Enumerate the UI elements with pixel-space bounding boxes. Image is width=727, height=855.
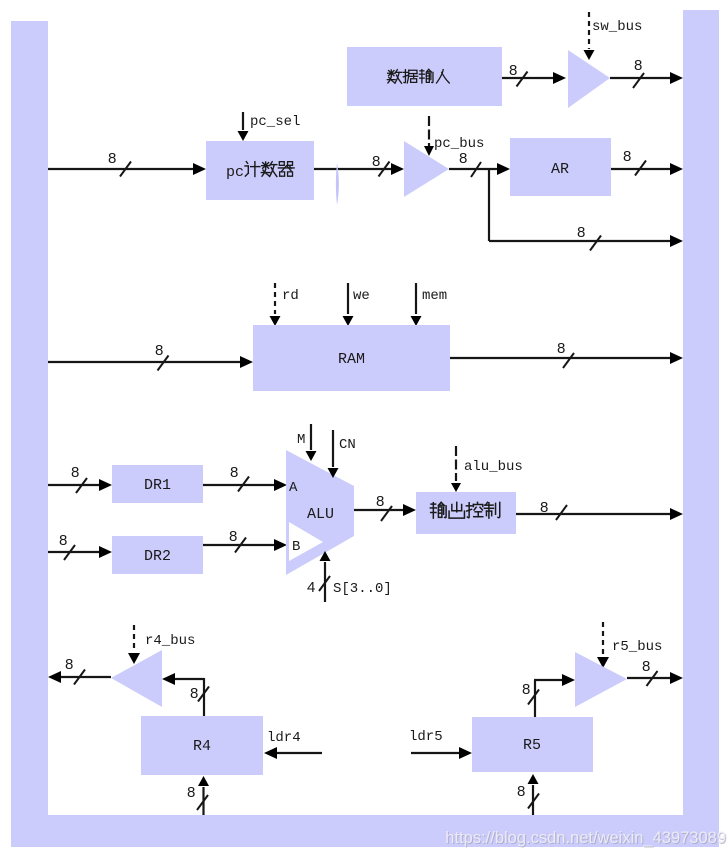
bus width label 8 xyxy=(187,784,208,810)
svg-text:8: 8 xyxy=(65,656,73,673)
control S[3..0] xyxy=(320,551,331,602)
wire ALU → 输出控制 xyxy=(354,504,416,516)
wire sw buffer → right rail xyxy=(610,72,683,84)
tri-state buffer r5 xyxy=(575,652,627,707)
svg-text:mem: mem xyxy=(422,288,447,304)
svg-text:8: 8 xyxy=(623,148,631,165)
block R4 xyxy=(141,716,263,775)
control alu_bus (dashed) xyxy=(451,446,461,492)
bus width label 8 xyxy=(522,681,539,705)
control rd (dashed) xyxy=(270,283,281,326)
wire lower line → right rail xyxy=(489,235,683,247)
bus width label 8 xyxy=(642,658,658,686)
svg-text:R5: R5 xyxy=(523,737,541,754)
wire left rail → pc计数器 xyxy=(48,163,206,175)
svg-text:DR1: DR1 xyxy=(144,477,171,494)
svg-text:sw_bus: sw_bus xyxy=(592,19,642,35)
svg-text:B: B xyxy=(292,539,300,555)
ALU U1 (arithmetic logic unit) xyxy=(286,450,354,575)
wire DR1 → ALU input A xyxy=(203,479,287,491)
bus width label 8 xyxy=(557,340,574,368)
bus width label 8 xyxy=(633,57,644,88)
svg-text:8: 8 xyxy=(108,150,116,167)
wire left rail → DR2 xyxy=(48,546,112,558)
svg-text:CN: CN xyxy=(339,437,356,453)
svg-text:8: 8 xyxy=(376,493,384,510)
block R5 xyxy=(472,717,593,772)
svg-text:8: 8 xyxy=(459,150,467,167)
svg-text:8: 8 xyxy=(577,224,585,241)
wire DR2 → ALU input B xyxy=(203,539,287,551)
bus width label 4 xyxy=(307,576,330,596)
bus width label 8 xyxy=(190,685,209,702)
svg-text:DR2: DR2 xyxy=(144,548,171,565)
wire r5 buffer → right rail xyxy=(627,672,683,684)
watermark xyxy=(445,829,727,848)
svg-text:8: 8 xyxy=(642,658,650,675)
tri-state buffer pc xyxy=(404,141,449,197)
svg-text:8: 8 xyxy=(59,532,67,549)
svg-text:rd: rd xyxy=(282,288,299,304)
svg-text:r5_bus: r5_bus xyxy=(612,639,662,655)
wire pc buffer → AR xyxy=(449,163,510,175)
wire AR → right rail xyxy=(611,163,683,175)
block DR2 xyxy=(112,536,203,574)
bus width label 8 xyxy=(108,150,131,177)
wire RAM → right rail xyxy=(450,352,683,364)
control we xyxy=(343,283,354,326)
wire R5 → r5 buffer xyxy=(534,674,575,717)
bus width label 8 xyxy=(65,656,85,685)
wire 数据输入 → sw buffer xyxy=(502,72,566,84)
wire bottom rail → R5 xyxy=(528,774,539,815)
bus width label 8 xyxy=(509,62,528,87)
block AR xyxy=(510,138,611,196)
svg-text:we: we xyxy=(353,288,370,304)
control ldr4 xyxy=(264,747,322,759)
bus width label 8 xyxy=(229,528,246,553)
bus width label 8 xyxy=(155,342,169,371)
wire 输出控制 → right rail xyxy=(516,508,683,520)
bus rail right xyxy=(683,10,719,847)
wire left rail → DR1 xyxy=(48,479,112,491)
block DR1 xyxy=(112,465,203,503)
svg-text:8: 8 xyxy=(190,685,198,702)
wire bottom rail → R4 xyxy=(198,776,209,815)
control sw_bus (dashed) xyxy=(584,12,595,60)
control M xyxy=(306,424,317,461)
control pc_bus (dashed) xyxy=(424,116,434,156)
control r4_bus (dashed) xyxy=(128,625,140,664)
svg-text:r4_bus: r4_bus xyxy=(145,633,195,649)
svg-text:alu_bus: alu_bus xyxy=(464,459,523,475)
svg-text:S[3..0]: S[3..0] xyxy=(333,581,392,597)
svg-text:8: 8 xyxy=(230,464,238,481)
svg-text:8: 8 xyxy=(517,783,525,800)
svg-text:8: 8 xyxy=(155,342,163,359)
bus width label 8 xyxy=(71,464,87,493)
wire R4 → r4 buffer xyxy=(162,673,204,716)
wire r4 buffer → left rail xyxy=(48,671,111,683)
svg-text:pc: pc xyxy=(226,164,244,181)
svg-text:8: 8 xyxy=(71,464,79,481)
svg-text:A: A xyxy=(289,480,298,496)
svg-text:4: 4 xyxy=(307,579,315,596)
svg-text:8: 8 xyxy=(187,784,195,801)
control CN xyxy=(328,430,339,478)
block pc计数器 (pc counter) xyxy=(206,141,314,200)
bus width label 8 xyxy=(577,224,601,251)
control mem xyxy=(411,283,422,326)
control r5_bus (dashed) xyxy=(597,622,609,668)
svg-text:ldr4: ldr4 xyxy=(267,730,301,746)
svg-text:8: 8 xyxy=(540,499,548,516)
artifact sliver xyxy=(336,163,339,205)
tri-state buffer r4 (points left) xyxy=(111,650,162,707)
svg-text:8: 8 xyxy=(634,57,642,74)
svg-text:8: 8 xyxy=(557,340,565,357)
block 数据输入 (data input) xyxy=(347,47,502,106)
wire left rail → RAM xyxy=(48,356,253,368)
svg-text:https://blog.csdn.net/weixin_4: https://blog.csdn.net/weixin_43973089 xyxy=(445,829,726,847)
svg-text:AR: AR xyxy=(551,161,569,178)
bus width label 8 xyxy=(459,150,481,177)
svg-text:R4: R4 xyxy=(193,738,211,755)
control pc_sel xyxy=(238,112,249,141)
svg-text:ALU: ALU xyxy=(307,506,334,523)
bus width label 8 xyxy=(230,464,249,492)
bus rail left xyxy=(11,21,48,847)
svg-text:8: 8 xyxy=(372,153,380,170)
bus width label 8 xyxy=(372,153,390,177)
block 输出控制 (output control) xyxy=(416,492,516,534)
svg-text:8: 8 xyxy=(509,62,517,79)
block RAM xyxy=(253,325,450,391)
control ldr5 xyxy=(411,747,472,759)
svg-text:pc_sel: pc_sel xyxy=(250,114,300,130)
bus width label 8 xyxy=(376,493,392,521)
bus rail bottom xyxy=(11,815,719,847)
svg-text:ldr5: ldr5 xyxy=(409,729,443,745)
bus width label 8 xyxy=(59,532,75,560)
tri-state buffer sw xyxy=(568,50,610,108)
wire pc计数器 → pc buffer xyxy=(314,163,404,175)
bus width label 8 xyxy=(623,148,646,176)
wire junction drop to lower bus line xyxy=(488,169,490,241)
svg-text:RAM: RAM xyxy=(338,351,365,368)
bus width label 8 xyxy=(540,499,567,520)
svg-text:8: 8 xyxy=(522,681,530,698)
bus width label 8 xyxy=(517,783,539,809)
svg-text:M: M xyxy=(297,432,305,448)
svg-text:8: 8 xyxy=(229,528,237,545)
